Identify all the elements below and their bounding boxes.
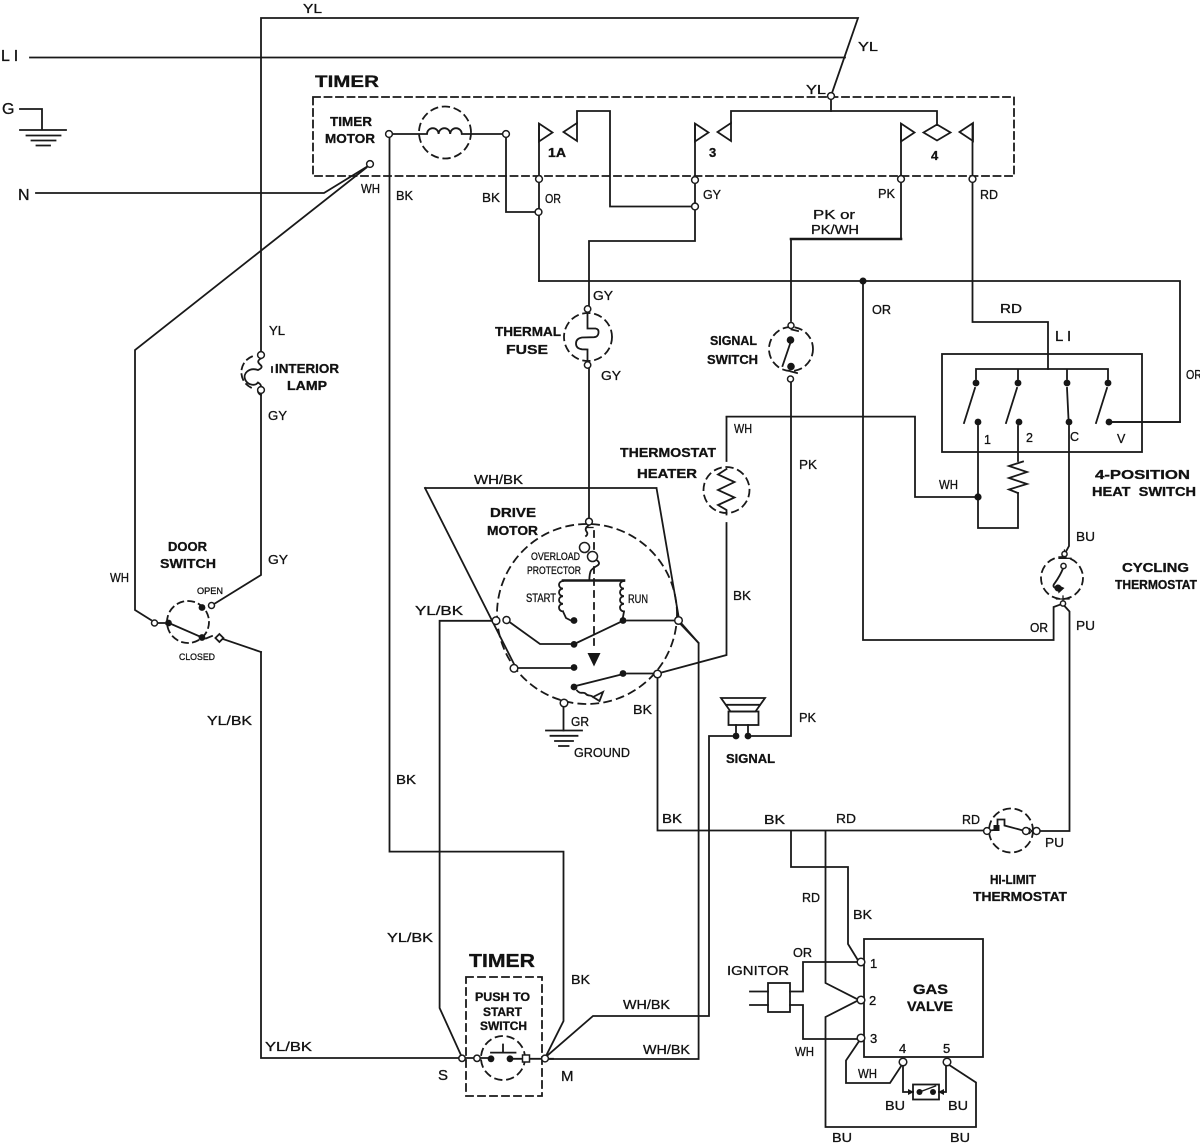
svg-text:BU: BU <box>1076 529 1095 544</box>
push-to-start M contact square <box>523 1055 530 1062</box>
svg-text:PK: PK <box>799 457 817 472</box>
motor start contact blade <box>510 622 571 644</box>
terminal lamp top <box>258 352 265 359</box>
svg-text:N: N <box>18 187 30 204</box>
hi-limit thermostat blade and bimetal <box>991 820 1024 831</box>
speaker box <box>729 712 759 726</box>
contact 1A movable line and OR drop <box>538 124 540 281</box>
svg-text:GY: GY <box>268 408 287 423</box>
svg-text:3: 3 <box>709 145 716 160</box>
svg-text:SWITCH: SWITCH <box>160 556 216 571</box>
svg-text:2: 2 <box>1026 431 1033 445</box>
svg-text:YL/BK: YL/BK <box>207 713 252 728</box>
svg-text:G: G <box>2 101 14 118</box>
speaker dots <box>733 733 740 740</box>
wire PU cycling thermostat to hi-limit <box>1040 606 1070 831</box>
svg-text:GR: GR <box>571 714 589 729</box>
timer push-to-start dashed box <box>466 977 542 1096</box>
overload protector squiggle <box>586 525 599 581</box>
wire timer bus y111 to contact 4 <box>731 111 937 125</box>
wire YL/BK left terminal to S <box>440 621 492 1054</box>
hi-limit right contacts <box>1023 828 1030 835</box>
gas valve terminal 1 <box>857 958 865 966</box>
hi-limit dashed circle <box>989 809 1033 853</box>
thermal fuse element <box>576 312 599 363</box>
cycling thermostat dashed circle <box>1041 557 1083 599</box>
wire M contact segment <box>510 1058 553 1060</box>
drive motor outline polygon <box>425 488 679 664</box>
terminal RD on dashed line <box>969 176 976 183</box>
wire BK from timer motor right to contact 1A <box>506 138 535 212</box>
svg-text:RD: RD <box>1000 301 1022 316</box>
svg-text:4: 4 <box>931 148 939 163</box>
heat switch resistor <box>1009 462 1027 494</box>
svg-text:PU: PU <box>1076 618 1095 633</box>
svg-text:DRIVE: DRIVE <box>490 505 536 520</box>
svg-text:YL/BK: YL/BK <box>387 930 433 945</box>
svg-text:OR: OR <box>1030 620 1048 635</box>
svg-text:YL/BK: YL/BK <box>265 1039 312 1054</box>
drive motor dashed circle <box>497 524 677 704</box>
svg-text:SWITCH: SWITCH <box>480 1021 527 1033</box>
terminal timer motor right <box>503 131 510 138</box>
wire run winding to right terminal <box>627 620 674 622</box>
svg-text:OR: OR <box>1186 367 1200 382</box>
svg-text:V: V <box>1117 432 1126 446</box>
heat switch upper dots <box>973 380 980 387</box>
svg-text:CYCLING: CYCLING <box>1122 560 1189 575</box>
motor lower switch dot <box>571 684 578 691</box>
door switch common dot <box>165 620 172 627</box>
svg-text:DOOR: DOOR <box>168 539 208 554</box>
heat switch lower dots <box>975 419 982 426</box>
svg-text:RD: RD <box>962 812 980 827</box>
svg-text:YL: YL <box>806 82 826 97</box>
svg-text:BK: BK <box>633 702 652 717</box>
svg-text:BU: BU <box>948 1098 968 1113</box>
svg-text:PU: PU <box>1045 835 1064 850</box>
BU interlock dots <box>917 1089 923 1095</box>
svg-text:C: C <box>1070 430 1079 444</box>
svg-text:OR: OR <box>872 302 891 317</box>
svg-text:YL/BK: YL/BK <box>415 603 463 618</box>
svg-text:MOTOR: MOTOR <box>325 131 376 146</box>
gas valve terminal 2 <box>857 996 865 1004</box>
heat switch blades <box>964 388 1107 423</box>
wire OR branch down to cycling thermostat <box>863 281 1061 640</box>
motor start contact circle <box>503 617 510 624</box>
svg-text:BK: BK <box>482 190 500 205</box>
wire PK signal switch to speaker <box>752 383 791 736</box>
timer motor coil <box>393 128 502 134</box>
terminal motor upper-left <box>492 617 500 625</box>
svg-text:BU: BU <box>950 1130 970 1145</box>
terminal motor upper-right <box>675 617 683 625</box>
terminal YL at timer <box>828 93 835 100</box>
wire BU valve 4 to interlock switch <box>903 1067 913 1093</box>
heat switch box <box>942 354 1142 452</box>
gas valve terminal 3 <box>857 1034 865 1042</box>
svg-text:PK: PK <box>799 710 816 725</box>
svg-text:YL: YL <box>269 323 285 338</box>
svg-text:WH/BK: WH/BK <box>623 997 670 1012</box>
svg-text:GAS: GAS <box>913 982 948 997</box>
svg-text:HI-LIMIT: HI-LIMIT <box>990 872 1036 887</box>
wire YL top from node at x261 to diagonal into timer <box>261 18 858 355</box>
wire L1 input <box>30 57 845 59</box>
terminal 3 GY on dashed line <box>692 177 699 184</box>
wire RD to gas valve 2 <box>826 831 858 999</box>
svg-text:RD: RD <box>980 187 998 202</box>
svg-text:WH: WH <box>939 477 958 492</box>
wire WH to heat switch <box>727 417 975 497</box>
svg-text:HEATER: HEATER <box>637 466 698 481</box>
gas valve box <box>864 939 983 1057</box>
door switch closed dot <box>199 634 206 641</box>
wire WH jumper valve 3 to 4 <box>846 1042 902 1083</box>
svg-text:BK: BK <box>571 972 590 987</box>
wire BU heat switch C to cycling thermostat <box>1066 426 1069 552</box>
svg-text:BU: BU <box>832 1130 852 1145</box>
gas valve terminal 5 <box>943 1058 951 1066</box>
cycling thermostat top contacts <box>1062 551 1067 556</box>
motor winding bus <box>563 579 624 582</box>
contact 3 triangles <box>695 123 731 142</box>
terminal 1A on dashed line <box>536 176 543 183</box>
door switch open dot <box>199 604 206 611</box>
contact 3 line down to thermal fuse <box>589 124 695 305</box>
terminal door switch common <box>152 620 158 626</box>
terminal motor ground <box>560 699 568 707</box>
terminal motor lower-left <box>510 665 518 673</box>
timer dashed box <box>313 97 1014 176</box>
wire WH/BK speaker left lead to M <box>548 736 732 1055</box>
terminal PK on dashed line <box>898 176 905 183</box>
svg-text:GROUND: GROUND <box>574 745 630 760</box>
svg-text:BK: BK <box>764 812 785 827</box>
BU interlock switch box <box>913 1085 939 1100</box>
svg-text:GY: GY <box>268 552 288 567</box>
signal switch dashed circle <box>769 327 813 371</box>
wire BK to gas valve 1 <box>791 831 858 960</box>
svg-text:THERMOSTAT: THERMOSTAT <box>620 445 716 460</box>
heat switch pole1 wire to resistor <box>978 426 1018 528</box>
BU interlock blade <box>920 1086 936 1092</box>
cycling thermostat dot <box>1055 585 1062 592</box>
overload protector contact circles <box>580 543 590 553</box>
push button <box>491 1045 516 1053</box>
svg-text:THERMAL: THERMAL <box>495 324 561 339</box>
svg-text:BK: BK <box>853 907 872 922</box>
push-to-start S contact <box>474 1055 480 1061</box>
run winding coil <box>620 581 624 617</box>
svg-text:L I: L I <box>1 48 18 65</box>
svg-text:S: S <box>438 1067 448 1084</box>
svg-text:GY: GY <box>703 187 721 202</box>
motor lower blade <box>578 675 620 686</box>
svg-text:TIMER: TIMER <box>330 114 373 129</box>
wire BK thermostat heater to motor terminal diagonal <box>681 624 699 643</box>
svg-text:OR: OR <box>545 191 561 206</box>
svg-text:OR: OR <box>793 945 812 960</box>
svg-text:SIGNAL: SIGNAL <box>710 333 757 348</box>
wire BK drive motor lower-right down to bottom rail <box>658 679 984 831</box>
svg-text:WH/BK: WH/BK <box>474 472 523 487</box>
svg-text:BK: BK <box>662 811 682 826</box>
junction WH heat switch <box>974 493 981 500</box>
timer motor dashed circle <box>419 107 471 159</box>
wire YL/BK bottom from door switch to S <box>261 652 491 1058</box>
ground G symbol <box>20 109 66 146</box>
svg-text:RD: RD <box>802 890 820 905</box>
signal switch blade <box>783 330 799 374</box>
svg-text:GY: GY <box>601 368 621 383</box>
cycling thermostat arrow <box>1057 585 1065 594</box>
svg-text:MOTOR: MOTOR <box>487 523 539 538</box>
motor lower right dot <box>620 670 627 677</box>
terminal motor GY <box>586 518 593 525</box>
svg-text:FUSE: FUSE <box>506 342 548 357</box>
wire WH ignitor to gas valve 3 <box>790 1005 857 1039</box>
terminal S <box>459 1055 465 1061</box>
heat switch bus <box>976 369 1108 379</box>
terminal fuse bottom <box>584 362 590 368</box>
terminal WH timer motor <box>367 161 374 168</box>
push-to-start dots <box>488 1055 495 1062</box>
svg-text:WH: WH <box>361 181 380 196</box>
motor start winding dot <box>571 617 578 624</box>
BU interlock arrows <box>908 1089 944 1095</box>
motor lower contact wire to right terminal <box>627 673 654 675</box>
svg-text:OVERLOAD: OVERLOAD <box>531 551 580 563</box>
wire WH long diagonal from timer motor to door switch <box>135 168 367 621</box>
door switch diamond contact <box>215 634 223 642</box>
svg-text:RUN: RUN <box>628 594 648 606</box>
gas valve terminal 4 <box>899 1058 907 1066</box>
svg-text:PK/WH: PK/WH <box>811 222 859 237</box>
signal switch dots <box>787 336 795 344</box>
terminal M <box>542 1055 549 1062</box>
svg-text:START: START <box>483 1007 522 1019</box>
contact 1A triangles <box>539 123 577 142</box>
thermostat heater component <box>662 417 735 673</box>
door switch dashed circle <box>167 601 209 643</box>
interior lamp filament <box>245 359 262 396</box>
svg-text:WH: WH <box>795 1044 814 1059</box>
terminal door switch open <box>209 603 215 609</box>
svg-text:GY: GY <box>593 288 613 303</box>
svg-text:TIMER: TIMER <box>315 73 379 91</box>
door switch blade <box>158 623 213 639</box>
svg-text:4-POSITION: 4-POSITION <box>1095 467 1190 482</box>
wire WH/BK from M to drive motor run terminal <box>550 624 699 1060</box>
motor blade to run dot <box>578 623 620 643</box>
svg-text:WH: WH <box>734 421 752 436</box>
svg-text:START: START <box>526 593 556 605</box>
wire GR motor to ground <box>563 708 565 731</box>
svg-text:CLOSED: CLOSED <box>179 652 215 663</box>
motor lower-left terminal wire <box>519 667 571 669</box>
hi-limit x mark <box>1030 829 1034 834</box>
hi-limit left contact <box>984 828 991 835</box>
svg-text:TIMER: TIMER <box>469 951 535 971</box>
contact 4 triangles and diamond <box>901 123 973 142</box>
wire from contact 1A to contact 3 terminal <box>577 111 691 207</box>
wire N input to WH terminal <box>36 167 367 193</box>
thermal fuse dashed circle <box>564 313 612 361</box>
svg-text:INTERIOR: INTERIOR <box>275 361 340 376</box>
svg-text:SWITCH: SWITCH <box>707 352 758 367</box>
wire YL drop to bus <box>830 100 832 111</box>
wire door switch to YL/BK riser <box>223 639 261 652</box>
svg-text:IGNITOR: IGNITOR <box>727 963 789 978</box>
motor run winding dot <box>620 617 627 624</box>
svg-text:PROTECTOR: PROTECTOR <box>527 565 581 577</box>
ignitor box <box>768 983 790 1012</box>
svg-text:RD: RD <box>836 811 856 826</box>
motor lower-left dot <box>571 664 578 671</box>
svg-text:LAMP: LAMP <box>287 378 327 393</box>
terminal signal switch bottom <box>788 376 794 382</box>
svg-text:3: 3 <box>870 1031 877 1046</box>
interior lamp dashed arc <box>241 357 252 389</box>
terminal BK-OR junction <box>535 209 542 216</box>
svg-text:PK: PK <box>878 186 895 201</box>
wire GY thermal fuse to motor <box>588 368 590 518</box>
terminal lamp bottom <box>258 387 265 394</box>
svg-text:2: 2 <box>869 993 876 1008</box>
svg-text:PK or: PK or <box>813 207 856 222</box>
wire OR ignitor to gas valve 1 <box>790 962 857 992</box>
centrifugal actuator squiggle <box>577 691 603 702</box>
terminal fuse top <box>584 306 590 312</box>
svg-text:4: 4 <box>899 1041 906 1056</box>
svg-text:1A: 1A <box>548 145 567 160</box>
svg-text:THERMOSTAT: THERMOSTAT <box>973 889 1067 904</box>
cycling thermostat blade <box>1053 569 1063 589</box>
svg-text:BK: BK <box>733 588 751 603</box>
motor start contact dot <box>571 641 578 648</box>
push-to-start dashed circle <box>481 1036 525 1080</box>
contact 4 PK line down to signal switch <box>791 124 901 321</box>
svg-text:HEAT SWITCH: HEAT SWITCH <box>1092 484 1196 499</box>
svg-text:BK: BK <box>396 772 416 787</box>
speaker SIGNAL trapezoid <box>721 698 765 712</box>
terminal GY mid junction <box>692 203 699 210</box>
svg-text:1: 1 <box>870 956 877 971</box>
svg-text:M: M <box>561 1068 574 1085</box>
terminal motor lower-right <box>654 670 662 678</box>
svg-text:WH: WH <box>110 570 129 585</box>
svg-text:L I: L I <box>1055 328 1071 345</box>
speaker leads <box>736 725 748 732</box>
wire interlock to valve 5 <box>939 1067 946 1093</box>
cycling thermostat bimetal tick <box>1059 550 1071 558</box>
svg-text:THERMOSTAT: THERMOSTAT <box>1115 577 1197 592</box>
terminal signal switch top <box>788 323 794 329</box>
svg-text:5: 5 <box>943 1041 950 1056</box>
junction OR <box>860 278 867 285</box>
svg-text:WH: WH <box>858 1066 877 1081</box>
svg-text:SIGNAL: SIGNAL <box>726 751 775 766</box>
cycling thermostat bottom contact <box>1060 601 1065 606</box>
svg-text:WH/BK: WH/BK <box>643 1042 690 1057</box>
svg-text:YL: YL <box>303 1 322 16</box>
dashed arrow in motor <box>593 531 595 651</box>
svg-text:PUSH TO: PUSH TO <box>475 992 530 1004</box>
wire YL lamp to door switch open contact <box>214 394 261 604</box>
start winding coil <box>559 581 571 621</box>
terminal timer motor left <box>386 131 393 138</box>
wire RD from contact 4 down to heat switch <box>973 124 1049 369</box>
thermostat heater dashed circle <box>704 467 750 513</box>
ignitor left leads <box>750 992 768 1006</box>
svg-text:OPEN: OPEN <box>197 586 223 597</box>
svg-text:BU: BU <box>885 1098 905 1113</box>
wire from V pole to OR riser <box>1109 421 1180 423</box>
svg-text:YL: YL <box>858 39 878 54</box>
wire BK from timer motor left down and across to M <box>390 138 564 1055</box>
wire BU valve 5 loop to valve 2 <box>826 1001 977 1127</box>
svg-text:VALVE: VALVE <box>907 999 953 1014</box>
svg-text:1: 1 <box>984 433 991 447</box>
svg-text:BK: BK <box>396 188 413 203</box>
wire OR long horizontal to heat switch V <box>539 281 1180 422</box>
ground symbol under motor <box>546 731 582 747</box>
